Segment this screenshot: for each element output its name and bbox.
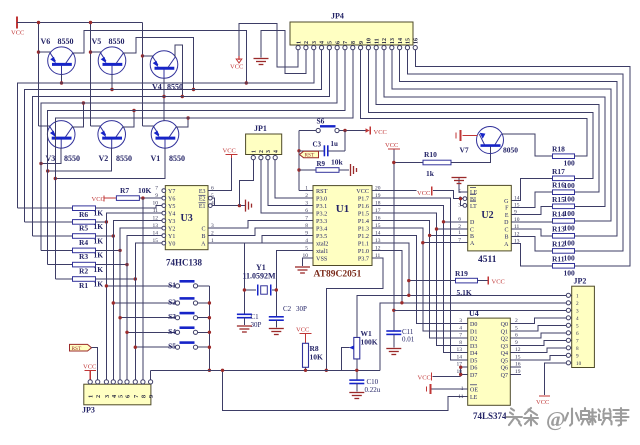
ground right of R9 xyxy=(350,164,352,176)
svg-text:S5: S5 xyxy=(168,342,176,351)
svg-text:6: 6 xyxy=(305,208,308,214)
wire emitter rail V5/V2 xyxy=(90,23,92,126)
wire U4 Q7 stub xyxy=(510,374,521,376)
power VCC top-left xyxy=(16,17,18,29)
svg-text:B: B xyxy=(201,234,205,240)
svg-text:10K: 10K xyxy=(138,186,152,195)
wire S1 left xyxy=(106,285,175,287)
chip U3 74HC138 xyxy=(165,186,208,250)
svg-text:9: 9 xyxy=(305,230,308,236)
wire R1 left xyxy=(55,278,72,280)
svg-text:100: 100 xyxy=(564,181,576,190)
wire U3 pin12 column2 xyxy=(113,221,162,381)
switch S4 xyxy=(175,330,179,334)
svg-text:E: E xyxy=(505,213,509,219)
svg-text:6: 6 xyxy=(576,331,579,337)
resistor R9 10k xyxy=(299,169,316,171)
pin JP3-5 xyxy=(118,380,122,384)
power VCC right of R19 xyxy=(487,277,489,285)
svg-text:Y2: Y2 xyxy=(168,226,175,232)
svg-text:D7: D7 xyxy=(470,373,477,379)
wire U3 E3 to VCC xyxy=(208,158,232,191)
pin JP4-5 xyxy=(327,46,331,50)
svg-text:1K: 1K xyxy=(94,251,104,260)
wire JP4 pin6 bus xyxy=(41,50,337,251)
pin U3-4 E1 bubble xyxy=(208,204,212,208)
wire V6 collector xyxy=(72,31,246,84)
wire W1 top to JP2 pin1 xyxy=(357,295,566,337)
transistor V7 8050 xyxy=(477,127,504,154)
wire JP1 pin2 to U1 P3.2 xyxy=(261,160,313,213)
svg-text:13: 13 xyxy=(153,223,159,229)
pin JP3-6 xyxy=(125,380,129,384)
wire R6 left xyxy=(17,207,72,209)
resistor R19 5.1K xyxy=(456,278,478,283)
svg-text:R18: R18 xyxy=(552,145,565,154)
wire bottom rail to U4 clock xyxy=(223,370,468,410)
svg-text:74LS374: 74LS374 xyxy=(473,411,507,421)
svg-text:8550: 8550 xyxy=(58,37,74,46)
svg-text:R10: R10 xyxy=(424,150,437,159)
svg-text:JP1: JP1 xyxy=(254,124,267,133)
wire V6 emitter xyxy=(39,51,51,53)
svg-text:V2: V2 xyxy=(99,154,109,163)
svg-text:VCC: VCC xyxy=(418,375,431,382)
power VCC below JP2 xyxy=(539,395,550,397)
pin JP4-11 xyxy=(374,46,378,50)
svg-text:P1.0: P1.0 xyxy=(358,248,369,255)
wire column6 R7 net to JP3 xyxy=(142,198,144,380)
svg-text:13: 13 xyxy=(390,38,396,44)
svg-text:11: 11 xyxy=(374,38,380,44)
resistor R5 1K xyxy=(73,220,96,225)
svg-text:R1: R1 xyxy=(79,281,88,290)
capacitor C3 1u xyxy=(299,150,324,152)
svg-text:10k: 10k xyxy=(331,158,344,167)
svg-text:8550: 8550 xyxy=(116,154,132,163)
svg-text:7: 7 xyxy=(459,333,462,339)
svg-text:4: 4 xyxy=(576,316,579,322)
svg-text:JP3: JP3 xyxy=(82,406,95,415)
wire JP4 pin11 bus to R16 xyxy=(376,50,599,192)
wire VCC to U2 BI LT xyxy=(433,191,463,199)
svg-text:11: 11 xyxy=(458,394,464,400)
pin JP4-3 xyxy=(312,46,316,50)
wire ground to U2 LE xyxy=(459,185,468,192)
pin JP4-10 xyxy=(366,46,370,50)
wire U2 B output to R12 xyxy=(511,236,552,251)
svg-text:E1: E1 xyxy=(199,204,206,210)
wire U3 pin14 column4 xyxy=(127,236,162,381)
wire JP2 pin10 to VCC xyxy=(545,363,567,395)
svg-text:S6: S6 xyxy=(317,117,325,126)
switch S5 xyxy=(175,345,179,349)
wire W1 bottom xyxy=(356,359,358,380)
chip U1 AT89C2051 xyxy=(313,186,372,266)
svg-text:100: 100 xyxy=(564,223,576,232)
svg-text:12: 12 xyxy=(382,38,388,44)
svg-text:Q0: Q0 xyxy=(501,322,508,328)
svg-text:Q3: Q3 xyxy=(501,344,508,350)
svg-text:C2: C2 xyxy=(283,305,292,313)
svg-text:R19: R19 xyxy=(455,269,468,278)
wire JP4 pin13 bus to R14 xyxy=(392,50,611,221)
pin JP1-4 xyxy=(273,156,277,160)
svg-text:LE: LE xyxy=(470,190,478,196)
wire U2 G to R17 xyxy=(511,178,552,200)
wire S4 left xyxy=(127,331,175,333)
svg-text:12: 12 xyxy=(153,216,159,222)
ground below C11 xyxy=(393,334,395,347)
pin JP3-4 xyxy=(111,380,115,384)
wire JP1 pin3 to U1 P3.1 xyxy=(268,160,313,206)
svg-text:R12: R12 xyxy=(552,239,565,248)
svg-text:P1.2: P1.2 xyxy=(358,233,369,240)
svg-text:8: 8 xyxy=(459,340,462,346)
svg-text:8: 8 xyxy=(305,223,308,229)
svg-text:Y0: Y0 xyxy=(168,241,175,247)
svg-text:D2: D2 xyxy=(470,337,477,343)
svg-text:1u: 1u xyxy=(331,140,339,148)
wire U2 C output to R13 xyxy=(511,229,552,236)
svg-text:R6: R6 xyxy=(79,210,88,219)
svg-text:P3.2: P3.2 xyxy=(316,211,327,218)
svg-text:P3.4: P3.4 xyxy=(316,226,327,233)
svg-text:100: 100 xyxy=(564,253,576,262)
svg-text:xtal2: xtal2 xyxy=(316,241,328,248)
transistor V1 xyxy=(151,121,179,149)
pin JP4-8 xyxy=(351,46,355,50)
wire S5 left xyxy=(135,346,175,348)
switch S2 xyxy=(175,301,179,305)
svg-text:S4: S4 xyxy=(168,327,176,336)
wire V1 collector xyxy=(176,118,188,127)
svg-text:4: 4 xyxy=(274,150,280,153)
svg-text:9: 9 xyxy=(359,41,365,44)
wire R3 left xyxy=(41,249,73,251)
svg-text:R11: R11 xyxy=(552,254,565,263)
chip U2 4511 xyxy=(468,185,512,251)
pin JP2-10 xyxy=(566,361,570,365)
pin U3-10 Y5 xyxy=(162,204,166,208)
wire S4 right xyxy=(198,331,210,333)
resistor R17 100 xyxy=(553,176,575,181)
svg-text:R5: R5 xyxy=(79,224,88,233)
svg-text:R15: R15 xyxy=(552,195,565,204)
svg-text:V5: V5 xyxy=(92,37,102,46)
svg-text:5: 5 xyxy=(328,41,334,44)
pin JP4-9 xyxy=(358,46,362,50)
svg-text:P3.5: P3.5 xyxy=(316,233,327,240)
svg-text:9: 9 xyxy=(148,395,155,398)
net label RST flag xyxy=(300,151,319,157)
ground below C2 xyxy=(275,320,277,327)
wire U2 A tap xyxy=(423,242,468,244)
wire R1 to column5 xyxy=(96,278,136,280)
power VCC at JP4 xyxy=(238,56,240,60)
svg-text:15: 15 xyxy=(153,238,159,244)
wire U2 D output to R14 xyxy=(511,220,552,223)
svg-text:P3.1: P3.1 xyxy=(316,203,327,210)
ground at JP4 xyxy=(254,58,269,60)
svg-text:VCC: VCC xyxy=(492,279,505,286)
pin JP4-12 xyxy=(382,46,386,50)
power VCC right of S6 xyxy=(366,128,370,133)
wire V4 base xyxy=(163,78,165,121)
wire V3 base xyxy=(41,148,61,164)
wire emitter rail V6/V3 xyxy=(38,23,40,126)
svg-text:3: 3 xyxy=(459,318,462,324)
wire V2 collector xyxy=(123,111,134,127)
svg-text:D0: D0 xyxy=(470,322,477,328)
resistor R18 100 xyxy=(553,154,575,159)
svg-text:1: 1 xyxy=(296,41,302,44)
pin JP1-3 xyxy=(266,156,270,160)
wire R19 to P1.1 column xyxy=(409,280,456,282)
crystal Y1 11.0592M xyxy=(257,285,259,296)
resistor R15 100 xyxy=(553,204,575,209)
transistor V4 xyxy=(150,51,178,79)
svg-text:U2: U2 xyxy=(481,210,493,221)
wire R4 left xyxy=(33,235,73,237)
svg-text:1K: 1K xyxy=(94,236,104,245)
switch S6 xyxy=(299,130,316,132)
svg-text:D6: D6 xyxy=(470,366,477,372)
svg-text:VCC: VCC xyxy=(92,196,105,203)
svg-text:6: 6 xyxy=(335,41,341,44)
svg-text:8: 8 xyxy=(351,41,357,44)
pin U2-3 LT bubble xyxy=(463,204,467,208)
pin JP4-13 xyxy=(390,46,394,50)
svg-text:1: 1 xyxy=(305,185,308,191)
wire R6 to U3 pin10 xyxy=(96,206,162,209)
wire C1 stem xyxy=(243,290,245,314)
resistor R10 1k xyxy=(423,160,451,165)
svg-text:2: 2 xyxy=(305,193,308,199)
transistor V6 xyxy=(48,47,76,75)
svg-text:30P: 30P xyxy=(296,305,307,313)
svg-text:R9: R9 xyxy=(317,160,326,168)
wire JP4 pin4 bus xyxy=(24,50,321,222)
svg-text:VCC: VCC xyxy=(230,64,243,71)
svg-text:JP4: JP4 xyxy=(331,12,344,21)
wire R10 to V7 base xyxy=(451,147,491,163)
svg-text:Y7: Y7 xyxy=(168,189,175,195)
svg-text:RST: RST xyxy=(305,153,315,159)
svg-text:3: 3 xyxy=(305,200,308,206)
svg-text:VCC: VCC xyxy=(296,327,309,334)
pin JP4-1 xyxy=(296,46,300,50)
svg-text:G: G xyxy=(504,199,509,205)
pin JP3-3 xyxy=(104,380,108,384)
wire JP4 pin2 to ground xyxy=(261,31,306,74)
svg-text:C: C xyxy=(201,226,205,232)
svg-text:BI: BI xyxy=(470,197,476,203)
wire V2 emitter xyxy=(91,125,102,127)
svg-text:V6: V6 xyxy=(41,37,51,46)
wire U4 Q5 to JP2 pin9 xyxy=(510,355,566,360)
wire U1 P1.1 column to JP2 line1 xyxy=(372,243,409,295)
wire U1 VSS to ground xyxy=(303,258,314,266)
pin JP2-6 xyxy=(566,331,570,335)
svg-text:1: 1 xyxy=(458,230,461,236)
svg-text:9: 9 xyxy=(155,193,158,199)
svg-text:C: C xyxy=(504,227,508,233)
pin JP4-4 xyxy=(319,46,323,50)
svg-text:D4: D4 xyxy=(470,351,477,357)
svg-text:8: 8 xyxy=(576,346,579,352)
power VCC bars at V7 emitter xyxy=(463,135,478,137)
svg-text:6: 6 xyxy=(125,395,132,398)
svg-text:10: 10 xyxy=(153,201,159,207)
resistor R11 100 xyxy=(553,264,575,269)
svg-text:1k: 1k xyxy=(426,169,435,178)
wire U1 P3.7 to common rail xyxy=(326,258,383,370)
wire R2 left xyxy=(48,264,73,266)
svg-text:8550: 8550 xyxy=(109,37,125,46)
wire xtal2 to crystal xyxy=(244,243,313,290)
svg-text:D5: D5 xyxy=(470,358,477,364)
wire OE feed xyxy=(432,388,468,390)
svg-text:B: B xyxy=(470,234,474,240)
svg-text:VSS: VSS xyxy=(316,256,328,263)
svg-text:9: 9 xyxy=(576,353,579,359)
pin U3-11 Y4 xyxy=(162,211,166,215)
wire U1 P1.6 column to U4 D4 xyxy=(372,206,468,353)
pin JP3-2 xyxy=(96,380,100,384)
switch S3 xyxy=(175,316,179,320)
pin JP4-6 xyxy=(335,46,339,50)
transistor V5 xyxy=(98,47,126,75)
svg-text:4: 4 xyxy=(459,325,462,331)
resistor R14 100 xyxy=(553,219,575,224)
svg-text:1K: 1K xyxy=(94,279,104,288)
svg-text:2: 2 xyxy=(304,41,310,44)
svg-text:1: 1 xyxy=(88,395,95,398)
svg-text:4511: 4511 xyxy=(478,255,497,265)
pin JP4-15 xyxy=(405,46,409,50)
svg-text:P1.7: P1.7 xyxy=(358,196,369,203)
svg-text:Q7: Q7 xyxy=(501,373,508,379)
wire U4 Q3 to JP2 pin7 xyxy=(510,340,566,345)
svg-text:7: 7 xyxy=(305,215,308,221)
wire U2 B tap xyxy=(430,234,468,236)
wire JP4 pin16 bus to R11 xyxy=(415,50,630,266)
svg-text:Y4: Y4 xyxy=(168,211,175,217)
svg-text:2: 2 xyxy=(576,301,579,307)
wire V6 base xyxy=(61,74,63,83)
svg-text:R7: R7 xyxy=(120,186,129,195)
svg-text:B: B xyxy=(504,235,508,241)
ground at U3 enables xyxy=(245,200,247,212)
svg-text:C3: C3 xyxy=(313,141,322,149)
svg-text:RST: RST xyxy=(316,188,328,195)
svg-text:10: 10 xyxy=(367,38,373,44)
potentiometer W1 100K xyxy=(354,337,360,359)
svg-text:3: 3 xyxy=(312,41,318,44)
pin JP2-2 xyxy=(566,301,570,305)
wire U3 pin13 column3 xyxy=(120,228,162,380)
wire C11 line to JP2 pin3 xyxy=(394,309,566,311)
pin U3-15 Y0 xyxy=(162,241,166,245)
svg-text:V4: V4 xyxy=(152,83,162,92)
wire U2 F to R16 xyxy=(511,192,552,207)
wire S2 right xyxy=(198,302,210,304)
chip U4 74LS374 xyxy=(468,318,511,405)
svg-text:R16: R16 xyxy=(552,181,565,190)
switch S1 xyxy=(175,284,179,288)
pin JP2-1 xyxy=(566,293,570,297)
capacitor C10 0.22u xyxy=(349,379,364,381)
svg-text:D1: D1 xyxy=(470,329,477,335)
svg-text:10K: 10K xyxy=(310,353,324,362)
svg-text:R2: R2 xyxy=(79,266,88,275)
svg-text:P1.6: P1.6 xyxy=(358,203,369,210)
wire S2 left xyxy=(113,302,175,304)
wire U3 C to U1 P3.3 xyxy=(208,221,313,229)
svg-text:JP2: JP2 xyxy=(574,277,587,286)
wire U1 P1.4 column to U4 D2 xyxy=(372,221,468,339)
wire JP4 pin12 bus to R15 xyxy=(384,50,605,207)
pin JP3-1 xyxy=(88,380,92,384)
svg-text:8: 8 xyxy=(140,395,147,398)
wire U2 A output to R11 xyxy=(511,244,552,266)
svg-text:7: 7 xyxy=(155,186,158,192)
svg-text:xtal1: xtal1 xyxy=(316,248,328,255)
capacitor C1 30P xyxy=(237,313,252,315)
svg-text:V7: V7 xyxy=(460,146,469,155)
svg-text:Y3: Y3 xyxy=(168,219,175,225)
pin U3-14 Y1 xyxy=(162,234,166,238)
svg-text:R13: R13 xyxy=(552,224,565,233)
pin U3-5 E2 bubble xyxy=(208,196,212,200)
svg-text:7: 7 xyxy=(458,238,461,244)
wire xtal1 to crystal xyxy=(272,251,313,290)
wire JP4 pin10 bus to R17 xyxy=(368,50,593,179)
svg-text:100K: 100K xyxy=(361,338,378,347)
pin JP2-5 xyxy=(566,323,570,327)
wire U1 P1.7 column to U4 D5 xyxy=(372,198,468,360)
svg-text:17: 17 xyxy=(457,362,463,368)
svg-text:Q6: Q6 xyxy=(501,366,508,372)
svg-text:VCC: VCC xyxy=(11,30,24,37)
wire V3 collector xyxy=(72,103,83,127)
wire S5 right xyxy=(198,346,210,348)
wire V5 collector xyxy=(123,38,194,90)
connector JP1 xyxy=(246,134,282,155)
pin JP2-7 xyxy=(566,338,570,342)
wire U3 B to U1 P3.4 xyxy=(208,228,313,236)
resistor R2 1K xyxy=(73,262,96,267)
wire U3 A to U1 P3.5 xyxy=(208,236,313,244)
svg-text:VCC: VCC xyxy=(83,364,96,371)
wire JP4 pin8 bus xyxy=(55,50,353,279)
net label RST flag at JP3 xyxy=(70,344,92,351)
svg-text:1K: 1K xyxy=(94,209,104,218)
svg-text:LT: LT xyxy=(470,204,477,210)
svg-text:13: 13 xyxy=(457,347,463,353)
wire V5 base xyxy=(111,74,113,90)
svg-text:Y5: Y5 xyxy=(168,204,175,210)
svg-text:@: @ xyxy=(546,407,566,431)
wire JP4 pin5 bus xyxy=(33,50,330,236)
wire V4 emitter xyxy=(143,55,154,57)
svg-text:Q4: Q4 xyxy=(501,351,508,357)
svg-text:P3.7: P3.7 xyxy=(358,256,369,263)
wire R5 to column1 xyxy=(96,221,107,223)
svg-text:16: 16 xyxy=(413,38,419,44)
svg-text:E2: E2 xyxy=(199,196,206,202)
